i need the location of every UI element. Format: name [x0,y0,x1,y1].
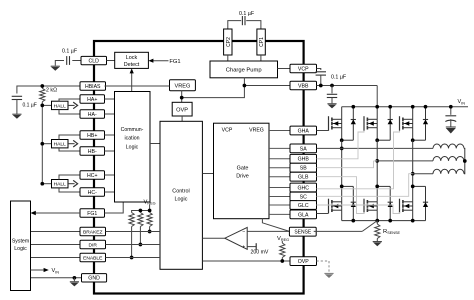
pin ENABLE [80,253,106,261]
transistor high-side QAH [329,107,342,141]
capacitor VBB bypass [327,86,337,104]
transistor high-side QCH [400,107,413,141]
label VREG (pullups) [144,200,156,206]
svg-text:BRAKEZ: BRAKEZ [83,229,103,235]
diode body DAL [342,186,356,220]
wire OVP dashed ground [317,261,334,278]
pin HB+ [80,131,105,139]
node pullup bus junctions [139,209,152,213]
svg-text:ENABLE: ENABLE [83,255,103,261]
svg-text:2 kΩ: 2 kΩ [46,88,57,94]
svg-text:Commun-: Commun- [121,127,144,133]
svg-text:System: System [12,239,29,245]
node VBB junction [243,84,247,88]
block Control Logic [160,121,202,269]
pin HA+ [80,95,105,103]
svg-text:GHC: GHC [297,185,309,191]
svg-text:VCP: VCP [222,127,233,133]
pin OVP [290,257,317,266]
wire control logic to gate drive [202,173,213,175]
svg-text:GHA: GHA [298,128,310,134]
svg-text:CP1: CP1 [259,37,265,47]
pin GLA [290,210,317,219]
wire GHA to QAH gate [317,130,329,132]
svg-text:GLA: GLA [298,212,309,218]
wire GLA to QAL gate [317,213,329,215]
diode body DCL [413,186,428,220]
wire SB phase line to coil [374,160,434,162]
pin BRAKEZ [80,227,106,235]
pin SENSE [289,227,316,236]
pin HB- [80,147,105,155]
svg-text:VREG: VREG [174,84,190,90]
svg-text:0.1 µF: 0.1 µF [23,103,37,109]
pin CLD [81,56,107,64]
pin HC+ [80,171,105,179]
wire GHB to QBH gate [317,131,365,159]
svg-text:Logic: Logic [126,144,139,150]
wire CP2 to charge pump [227,55,229,61]
wire CP1 to charge pump [260,55,262,61]
wire HBIAS rail [17,86,80,94]
ground (RSENSE) [373,242,382,247]
node source join B high [375,138,379,142]
node rail drain B [375,105,379,109]
pin HC- [80,188,105,196]
IC boundary (device outline) [94,41,304,294]
svg-text:HALL: HALL [54,182,67,188]
svg-text:GHB: GHB [298,157,310,163]
resistor RSENSE [375,221,380,242]
wire SC to phase C [317,174,413,197]
wire HA+ to communication logic [105,98,115,100]
transistor low-side QBL [364,186,377,220]
capacitor 0.1uF (CLD) [55,49,81,66]
node source rail junctions [351,219,414,223]
pin HBIAS [80,82,106,90]
wire system logic GND [31,277,82,279]
node OVP pullup junction [280,259,284,263]
pin SC [290,192,317,201]
hall sensor C [40,175,80,192]
wire VREG to HBIAS [105,85,170,87]
node FG1 (lock detect input) [148,59,180,65]
svg-text:Control: Control [172,189,189,195]
pin HA- [80,110,105,118]
inductor motor coil A [433,144,465,161]
node motor star point [463,159,467,163]
svg-text:Charge Pump: Charge Pump [226,68,262,74]
wire charge pump to VBB node [243,78,245,86]
pin GHB [290,154,317,163]
svg-text:Drive: Drive [236,174,249,180]
pin GND [82,274,107,282]
wire comparator inverting input to SENSE [247,230,290,232]
wire OVP to control logic [181,116,183,121]
svg-text:HC-: HC- [88,190,97,196]
wire SA to phase A / coil [317,147,434,149]
wire gate drive to sense (diagonal) [262,219,289,232]
wire communication to control logic [150,143,160,145]
node rail diode A [351,105,355,109]
node rail junctions [449,105,453,109]
wire phase column A [341,140,343,186]
wire gate drive to GHA [269,130,290,132]
node hall supply junction (HBIAS) [40,84,44,88]
wire SENSE to bridge [314,221,378,232]
svg-text:HB-: HB- [88,149,97,155]
svg-text:VCP: VCP [298,66,309,72]
svg-text:HALL: HALL [54,103,67,109]
pin FG1 [80,209,105,217]
block System Logic [11,201,31,291]
svg-text:HBIAS: HBIAS [85,84,101,90]
node VBB cap junctions [319,84,334,88]
svg-text:200 mV: 200 mV [251,249,269,255]
wire low-side source rail [342,220,426,222]
wire lock detect to communication logic (arrow up) [130,68,134,91]
svg-text:Lock: Lock [126,55,138,61]
wire GLB to QBL gate [317,177,365,214]
svg-text:HC+: HC+ [87,173,98,179]
svg-text:Logic: Logic [14,246,27,252]
pin DIR [80,240,106,248]
wire comparator output to control logic [202,237,224,239]
wire VBB to VREG and OVP [182,86,290,103]
pin GLC [290,201,317,210]
svg-text:HA+: HA+ [87,97,97,103]
svg-text:GLB: GLB [298,175,309,181]
resistor pullup DIR [138,213,143,247]
svg-text:DIR: DIR [89,242,98,248]
wire gate drive to SB [269,167,290,169]
ground (VBB cap) [327,104,336,109]
svg-text:GND: GND [88,276,100,282]
hall sensor B [40,135,80,151]
svg-text:0.1 µF: 0.1 µF [331,74,347,80]
wire CP2-CP1 pump capacitor leads [228,21,261,29]
pin SA [290,144,317,153]
wire VREG pullup bus [132,205,150,213]
node source join C high [411,138,415,142]
wire hall supply bus [41,102,43,184]
pin CP1 [257,29,265,55]
block Lock Detect [115,52,149,68]
transistor high-side QBH [364,107,377,141]
svg-text:FG1: FG1 [169,59,180,65]
svg-text:VBB: VBB [298,83,309,89]
wire system logic to DIR [31,244,81,246]
block Charge Pump [210,61,278,78]
resistor pullup BRAKEZ [147,213,152,234]
node phase C junction [411,172,415,176]
pin GLB [290,172,317,181]
reference 200 mV [247,243,269,255]
capacitor 0.1uF (HBIAS) [12,96,37,114]
wire gate drive to GLC [269,204,290,206]
block Gate Drive [214,123,270,219]
block Communication Logic [115,92,151,203]
wire system logic to ENABLE [31,257,81,259]
svg-text:SENSE: SENSE [294,230,312,236]
svg-text:HALL: HALL [54,142,67,148]
wire control logic to OVP pin [202,260,290,262]
wire bridge supply rail [342,106,468,108]
ground (GND pin) [70,278,79,287]
node rail drain C [411,105,415,109]
svg-text:+: + [242,244,245,250]
pin GHA [290,126,317,135]
block OVP (internal) [172,102,192,116]
pin VREG [170,80,196,91]
resistor pullup ENABLE [129,213,134,260]
wire gate drive to GHB [269,158,290,160]
wire VBB external [317,86,378,107]
label RSENSE [383,229,401,235]
svg-text:SA: SA [300,146,307,152]
pin GHC [290,183,317,192]
svg-text:OVP: OVP [298,259,309,265]
svg-text:Detect: Detect [124,62,140,68]
node rail diode C [424,105,428,109]
svg-text:HB+: HB+ [87,133,97,139]
svg-text:VREG: VREG [249,127,264,133]
pin VCP [290,64,317,73]
inductor motor coil B [433,157,465,162]
inductor motor coil C [433,161,465,174]
label VREG (OVP pullup) [277,236,289,242]
diode body DBL [377,186,393,220]
ground (VIN cap, power) [446,127,456,134]
svg-text:−: − [242,229,245,235]
transistor low-side QAL [329,186,342,220]
wire HB- to communication logic [105,150,115,152]
svg-text:CP2: CP2 [226,37,232,47]
svg-text:0.1 µF: 0.1 µF [62,49,78,55]
resistor pullup OVP [280,241,285,261]
ground (CLD cap) [51,66,60,71]
node rail diode B [388,105,392,109]
wire HC+ to communication logic [105,174,115,176]
wire DIR to control logic [106,244,161,246]
wire CLD to lock detect [107,60,115,62]
wire SB to phase B [317,161,374,168]
wire gate drive to SC [269,196,290,198]
node low drain C [411,185,415,189]
svg-text:ication: ication [125,136,140,142]
wire gate drive to GLA [269,213,290,215]
wire SC phase line to coil [413,173,433,175]
svg-text:Gate: Gate [237,166,249,172]
svg-text:OVP: OVP [176,107,188,113]
wire phase column B [376,140,378,186]
capacitor 0.1uF (charge pump, CP1-CP2) [239,11,255,25]
wire HA- to communication logic [105,113,115,115]
node low drain A [340,185,344,189]
wire ENABLE to control logic [106,257,161,259]
hall sensor A [40,99,80,114]
wire system logic to BRAKEZ [31,231,81,233]
svg-text:GLC: GLC [298,203,309,209]
wire gate drive to GHC [269,187,290,189]
svg-text:HA-: HA- [88,112,97,118]
wire FG1 to system logic (arrow) [31,211,81,215]
wire GLC to QCL gate [317,205,400,214]
svg-text:SB: SB [300,166,307,172]
op-amp current comparator [225,227,247,250]
wire gate drive to SA [269,147,290,149]
node low drain B [375,185,379,189]
node source join A high [340,138,344,142]
capacitor bulk (VIN) [445,107,456,127]
node VIN (system logic supply) [31,268,60,275]
transistor low-side QCL [400,186,413,220]
svg-text:FG1: FG1 [87,211,97,217]
node GND junction [73,276,77,280]
node VREG junction [180,96,184,100]
diode body DBH [377,107,393,141]
wire FG1 to communication logic [105,202,124,213]
capacitor 0.1uF (VCP-VBB) [316,69,347,86]
resistor 2 kOhm (hall bias) [40,86,57,102]
node phase B junction [375,159,379,163]
pin SB [290,163,317,172]
diode body DAH [342,107,356,141]
svg-text:Logic: Logic [175,196,188,202]
wire GHC to QCH gate [317,131,400,189]
wire HB+ to communication logic [105,134,115,136]
wire charge pump to VCP pin [278,68,291,70]
pin CP2 [224,29,232,55]
svg-text:SC: SC [300,194,307,200]
node phase A junction [340,147,344,151]
wire HC- to communication logic [105,191,115,193]
pin VBB [290,81,317,90]
svg-text:0.1 µF: 0.1 µF [239,11,255,17]
ground (HBIAS cap) [12,114,21,119]
wire phase column C [412,140,414,186]
label VIN [458,99,466,105]
svg-text:CLD: CLD [89,59,100,65]
wire BRAKEZ to control logic [106,231,161,233]
diode body DCH [413,107,428,141]
wire gate drive to GLB [269,176,290,178]
